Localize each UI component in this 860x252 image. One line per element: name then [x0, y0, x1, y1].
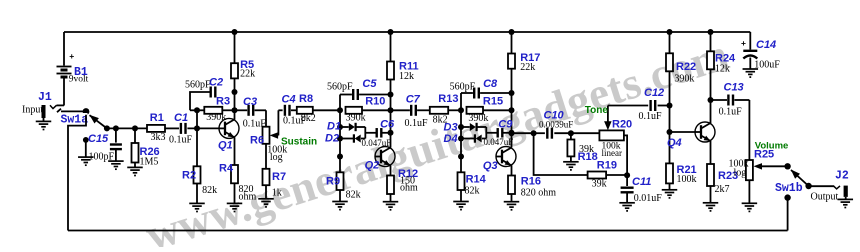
capacitor C5 [340, 94, 352, 96]
switch Sw1a common node [83, 108, 90, 115]
wire bottom bypass rail [68, 230, 788, 232]
svg-text:R22: R22 [676, 61, 696, 73]
svg-text:390k: 390k [468, 113, 488, 124]
node R10 right [388, 107, 394, 113]
svg-text:C11: C11 [632, 176, 651, 188]
svg-text:C8: C8 [483, 78, 498, 90]
svg-text:ohm: ohm [239, 192, 257, 203]
svg-text:R4: R4 [219, 163, 234, 175]
svg-text:9volt: 9volt [69, 74, 89, 84]
svg-text:R13: R13 [438, 93, 458, 105]
svg-text:C5: C5 [362, 78, 377, 90]
svg-text:1M5: 1M5 [140, 157, 159, 168]
wire Sw1b pole to J2 [808, 185, 834, 187]
capacitor C8 [461, 92, 473, 94]
ground R14 [453, 201, 469, 203]
svg-text:12k: 12k [399, 71, 414, 82]
svg-text:0.047uF: 0.047uF [484, 137, 514, 147]
svg-text:R2: R2 [182, 169, 196, 181]
node Q4 collector [708, 97, 714, 103]
wire Sw1b bypass to rail [787, 198, 789, 231]
ground R16 [504, 201, 520, 203]
label Sw1a [60, 113, 88, 124]
svg-text:C15: C15 [88, 133, 109, 145]
wire +V top rail [64, 31, 750, 33]
wire R15 right [483, 109, 512, 111]
svg-text:0.047uF: 0.047uF [362, 138, 392, 148]
svg-text:390k: 390k [674, 74, 694, 85]
ground J2 [845, 197, 847, 199]
wire input row [107, 127, 147, 129]
node Q3 base [458, 154, 464, 160]
wiper R25 [754, 163, 763, 170]
ground R7 [258, 198, 274, 200]
node R18 top [568, 130, 574, 136]
svg-text:R14: R14 [466, 173, 487, 185]
node R5 rail [232, 29, 238, 35]
svg-text:0.1uF: 0.1uF [719, 107, 743, 118]
switch Sw1a ground throw [83, 137, 89, 143]
svg-text:82k: 82k [346, 189, 361, 200]
svg-text:0.1uF: 0.1uF [405, 118, 429, 129]
ground R4 [227, 202, 243, 204]
node diode D4 [458, 136, 464, 142]
svg-text:Output: Output [811, 192, 839, 203]
svg-text:log: log [734, 168, 747, 179]
wire Q1 collector [234, 92, 236, 120]
potentiometer R6 [263, 127, 270, 144]
node C6 right [388, 130, 394, 136]
svg-text:C9: C9 [498, 118, 513, 130]
svg-text:R25: R25 [754, 148, 774, 160]
wire Q4 emitter [710, 141, 712, 164]
svg-text:Q2: Q2 [365, 160, 380, 172]
svg-text:22k: 22k [240, 69, 255, 80]
resistor R19 [588, 172, 607, 179]
potentiometer R25 [746, 160, 753, 180]
capacitor C1 [180, 123, 182, 134]
wire R6 to R7 [265, 144, 267, 169]
wire R19 right [606, 174, 627, 176]
wire jack tip to Sw1a [61, 110, 86, 112]
node diode D3 [458, 124, 464, 130]
wire C1 to Q1 base [187, 127, 219, 129]
svg-text:820 ohm: 820 ohm [521, 188, 557, 199]
svg-text:0.01uF: 0.01uF [634, 193, 663, 204]
svg-text:560pF: 560pF [327, 81, 353, 92]
resistor R22 [669, 32, 671, 53]
wire Q2 collector [390, 95, 392, 148]
transistor Q1 [219, 118, 239, 138]
svg-text:Tone: Tone [585, 105, 609, 116]
resistor R9 [339, 157, 341, 173]
resistor R23 [707, 164, 714, 186]
node Q2 base [337, 154, 343, 160]
wire Q1 emitter [234, 137, 236, 165]
wiper R20 [604, 121, 612, 130]
node diode D1 [337, 124, 343, 130]
svg-text:Q3: Q3 [483, 160, 498, 172]
switch Sw1b arm [791, 170, 809, 186]
node Q1 base [194, 125, 200, 131]
node C8 right [509, 90, 515, 96]
wire diode column [339, 110, 341, 156]
node C15 tap [113, 125, 119, 131]
ground R23 [703, 202, 719, 204]
battery B1 [63, 32, 65, 66]
wire Q1 base riser [196, 110, 198, 128]
resistor R5 [234, 32, 236, 63]
svg-text:390k: 390k [206, 112, 226, 123]
ground C15 [108, 160, 124, 162]
jack J1 [42, 105, 46, 118]
svg-text:1k: 1k [272, 188, 282, 199]
svg-text:100k: 100k [677, 174, 697, 185]
svg-text:D2: D2 [325, 133, 339, 145]
svg-text:R19: R19 [597, 160, 617, 172]
switch Sw1a arm [90, 115, 107, 128]
capacitor C11 [626, 175, 628, 186]
resistor R21 [669, 132, 671, 163]
wire wiper to C12 [608, 105, 648, 107]
resistor R26 [134, 128, 136, 143]
svg-text:Input: Input [22, 105, 43, 116]
svg-text:C3: C3 [243, 96, 257, 108]
svg-text:8k2: 8k2 [301, 113, 316, 124]
node R15 right [509, 107, 515, 113]
capacitor C13 [711, 99, 728, 101]
ground R9 [332, 201, 348, 203]
wire tone dip [534, 133, 588, 175]
node Sw1a throw [104, 125, 110, 131]
svg-text:J2: J2 [835, 169, 849, 182]
node tone dip [531, 130, 537, 136]
ground C11 [619, 202, 635, 204]
svg-text:C14: C14 [756, 39, 776, 51]
svg-text:39k: 39k [592, 179, 607, 190]
svg-text:C7: C7 [406, 94, 421, 106]
svg-text:R1: R1 [150, 112, 164, 124]
node diode D2 [337, 136, 343, 142]
wire C5 riser [339, 95, 341, 111]
svg-text:R18: R18 [578, 151, 598, 163]
node C2 collector [232, 89, 238, 95]
ground R21 [662, 189, 678, 191]
svg-text:100uF: 100uF [754, 59, 780, 70]
svg-text:R7: R7 [272, 171, 286, 183]
node R26 tap [132, 125, 138, 131]
svg-text:12k: 12k [715, 63, 730, 74]
capacitor C7 [391, 109, 410, 111]
svg-text:ohm: ohm [400, 182, 418, 193]
svg-text:R6: R6 [250, 134, 264, 146]
svg-text:R10: R10 [365, 95, 385, 107]
node Sw1b pole [805, 183, 811, 189]
switch Sw1b bypass contact [784, 194, 790, 200]
wire R3 right [222, 109, 234, 111]
resistor R17 [511, 32, 513, 54]
potentiometer R20 [599, 130, 624, 140]
capacitor C2 [209, 87, 211, 98]
transistor Q4 [695, 122, 715, 142]
resistor R2 [196, 128, 198, 166]
node R24 rail [708, 29, 714, 35]
capacitor C15 [115, 128, 117, 142]
diode D3 [461, 126, 470, 128]
ground Sw1a throw [78, 156, 94, 158]
capacitor C12 [649, 100, 651, 111]
wire Sw1a to bypass rail [68, 115, 86, 231]
node R10 left [337, 107, 343, 113]
wire C2 left leg [190, 92, 210, 110]
wire Q3 collector to tone row [512, 132, 534, 134]
svg-text:R15: R15 [483, 95, 503, 107]
capacitor C6 [365, 132, 375, 134]
jack J2 [844, 186, 848, 197]
capacitor C10 [546, 128, 548, 139]
wire C13 to R25 [748, 100, 750, 160]
resistor R7 [263, 169, 270, 185]
svg-text:log: log [270, 152, 283, 163]
node Q1 collector mid [232, 107, 238, 113]
wire wiper to C4 [278, 109, 282, 111]
node R22 rail [667, 29, 673, 35]
svg-text:R16: R16 [521, 176, 541, 188]
node C12 out [667, 103, 673, 109]
resistor R8 [297, 107, 313, 114]
svg-text:R3: R3 [216, 96, 230, 108]
svg-text:C12: C12 [644, 87, 664, 99]
svg-text:Q4: Q4 [667, 137, 682, 149]
svg-text:22k: 22k [520, 62, 535, 73]
resistor R12 [390, 165, 392, 175]
diode D4 [461, 138, 474, 140]
svg-text:C13: C13 [724, 81, 744, 93]
svg-text:R9: R9 [326, 175, 340, 187]
svg-text:R20: R20 [612, 119, 632, 131]
switch Sw1b volume contact [784, 163, 790, 169]
wire Q3 collector [511, 93, 513, 148]
node R11 rail [388, 29, 394, 35]
node Q3 collector tone [509, 130, 515, 136]
resistor R3 [204, 107, 222, 114]
resistor R11 [390, 32, 392, 62]
svg-text:390k: 390k [346, 112, 366, 123]
resistor R14 [460, 157, 462, 173]
svg-text:0.1uF: 0.1uF [169, 135, 193, 146]
svg-text:Sw1b: Sw1b [775, 182, 803, 195]
wire R13 to Q3 base node [448, 109, 461, 111]
ground R18 [563, 161, 579, 163]
diode D2 [340, 138, 353, 140]
ground R25 [742, 202, 758, 204]
transistor Q3 [496, 147, 516, 167]
svg-text:82k: 82k [465, 186, 480, 197]
svg-text:3k3: 3k3 [151, 132, 166, 143]
svg-text:Sw1a: Sw1a [61, 113, 89, 126]
resistor R4 [231, 165, 238, 183]
resistor R10 [346, 107, 363, 114]
wire diode join [485, 127, 487, 139]
node C9 right [509, 130, 515, 136]
wire Q4 collector [710, 100, 712, 123]
svg-text:0.1uF: 0.1uF [639, 111, 663, 122]
node C11 top [624, 172, 630, 178]
node R15 left [458, 107, 464, 113]
ground R12 [383, 201, 399, 203]
ground R26 [127, 166, 143, 168]
node Q4 base [667, 129, 673, 135]
svg-text:82k: 82k [202, 185, 217, 196]
ground R2 [189, 202, 205, 204]
svg-text:D4: D4 [444, 133, 458, 145]
node R3 left [194, 107, 200, 113]
svg-text:0.0039uF: 0.0039uF [539, 119, 573, 129]
resistor R15 [467, 107, 484, 114]
svg-text:C4: C4 [282, 93, 296, 105]
wire R20 right leg [624, 135, 627, 175]
resistor R24 [710, 32, 712, 51]
wire R1-C1 [165, 127, 179, 129]
svg-text:100pF: 100pF [89, 152, 115, 163]
resistor R13 [430, 107, 448, 114]
capacitor C4 [284, 105, 286, 116]
svg-text:Q1: Q1 [218, 140, 233, 152]
svg-text:2k7: 2k7 [715, 184, 730, 195]
svg-text:J1: J1 [38, 91, 52, 104]
diode D1 [340, 126, 349, 128]
svg-text:C2: C2 [209, 76, 223, 88]
node C5 right [388, 92, 394, 98]
svg-text:R8: R8 [299, 93, 313, 105]
wire R8 to Q2 base node [313, 109, 340, 111]
wire C8 riser [460, 93, 462, 110]
resistor R18 [570, 133, 572, 139]
svg-text:C1: C1 [174, 112, 188, 124]
capacitor C9 [486, 132, 496, 134]
ground C14 [743, 68, 759, 70]
wire base to Q4 [670, 131, 696, 133]
wire tone row to C10 [534, 132, 545, 134]
svg-text:D3: D3 [444, 122, 458, 134]
svg-text:+: + [741, 38, 746, 48]
svg-text:560pF: 560pF [185, 80, 211, 91]
resistor R16 [511, 165, 513, 175]
svg-text:linear: linear [602, 148, 623, 158]
svg-text:+: + [69, 51, 74, 61]
transistor Q2 [375, 147, 395, 167]
capacitor C14 [743, 50, 757, 52]
ground J1 [43, 118, 45, 121]
svg-text:C6: C6 [380, 118, 395, 130]
svg-text:560pF: 560pF [450, 82, 476, 93]
wire R22 to base [669, 106, 671, 133]
node R17 rail [509, 29, 515, 35]
wire diode column [460, 110, 462, 156]
capacitor C3 [235, 109, 248, 111]
wiper R6 [270, 132, 279, 139]
wire R25 to ground [748, 180, 750, 203]
wire rail to C14 [749, 32, 751, 50]
svg-text:D1: D1 [327, 121, 341, 133]
wire diode join [364, 127, 366, 139]
wire R3 row left [190, 109, 204, 111]
wire C3 to R6 [265, 110, 267, 126]
wire R10 right [362, 109, 391, 111]
resistor R1 [147, 125, 165, 132]
